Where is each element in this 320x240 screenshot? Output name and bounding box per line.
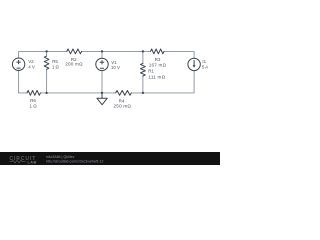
svg-text:5 A: 5 A [202, 64, 208, 69]
resistor R5 [44, 56, 49, 69]
wire bottom rail left segment [19, 92, 27, 94]
wire top rail middle segment [82, 50, 151, 52]
wire R1 column top stub [142, 51, 144, 63]
svg-text:1 Ω: 1 Ω [52, 64, 60, 69]
resistor R4 [116, 91, 132, 96]
current source I1 [188, 58, 200, 70]
node dot bottom of R5 [45, 92, 47, 94]
wire bottom rail right segment [131, 71, 194, 93]
svg-text:200 mΩ: 200 mΩ [65, 61, 83, 66]
wire top rail right segment [164, 51, 194, 58]
wire V1 column top stub [101, 51, 103, 58]
resistor R1 [141, 63, 146, 76]
node dot ground junction [101, 92, 103, 94]
wire V1 column bottom stub [101, 70, 103, 93]
svg-text:mkc3A84 | Qkl4ev: mkc3A84 | Qkl4ev [46, 155, 75, 159]
svg-text:R1: R1 [148, 69, 154, 74]
svg-text:167 mΩ: 167 mΩ [149, 63, 167, 68]
voltage source V1 [96, 58, 108, 70]
wire R1 column bottom stub [142, 76, 144, 93]
svg-text:R5: R5 [52, 59, 58, 64]
svg-text:I1: I1 [202, 59, 206, 64]
wire R5 column bottom stub [46, 69, 48, 93]
wire top rail left segment [19, 51, 67, 58]
svg-text:1 Ω: 1 Ω [29, 103, 37, 108]
node dot bottom of R1 [142, 92, 144, 94]
watermark bar [0, 152, 220, 165]
wire bottom rail middle segment [40, 92, 115, 94]
resistor R3 [151, 49, 165, 54]
node dot top of R5 [45, 50, 47, 52]
svg-text:LAB: LAB [28, 160, 37, 164]
svg-text:R3: R3 [155, 57, 161, 62]
wire left column below V2 [18, 70, 20, 93]
node dot top of V1 [101, 50, 103, 52]
resistor R6 [27, 91, 40, 96]
svg-text:111 mΩ: 111 mΩ [148, 75, 165, 80]
wire R5 column top stub [46, 51, 48, 56]
svg-text:250 mΩ: 250 mΩ [114, 104, 132, 109]
voltage source V2 [12, 58, 24, 70]
resistor R2 [67, 49, 82, 54]
svg-text:V2: V2 [28, 59, 34, 64]
node dot top of R1 [142, 50, 144, 52]
CircuitLab logo zigzag [10, 160, 26, 163]
svg-text:10 V: 10 V [111, 65, 120, 70]
ground [97, 93, 107, 105]
svg-text:htto://circuitlab.com/c/2xc3xa: htto://circuitlab.com/c/2xc3xa/hw5-12 [46, 160, 103, 164]
svg-text:4 V: 4 V [28, 64, 35, 69]
